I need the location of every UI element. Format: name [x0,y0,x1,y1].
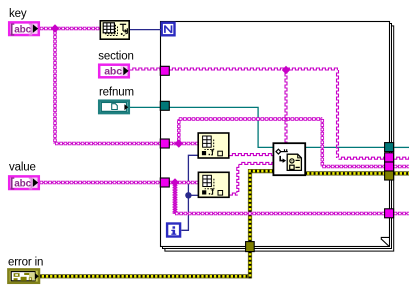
svg-text:section: section [98,51,133,63]
svg-text:]: ] [29,21,33,36]
svg-text:key: key [9,8,27,20]
svg-text:error in: error in [8,256,43,268]
svg-text:abc: abc [104,66,122,78]
svg-text:]: ] [29,175,33,190]
svg-text:value: value [9,162,36,174]
svg-text:refnum: refnum [99,86,134,98]
